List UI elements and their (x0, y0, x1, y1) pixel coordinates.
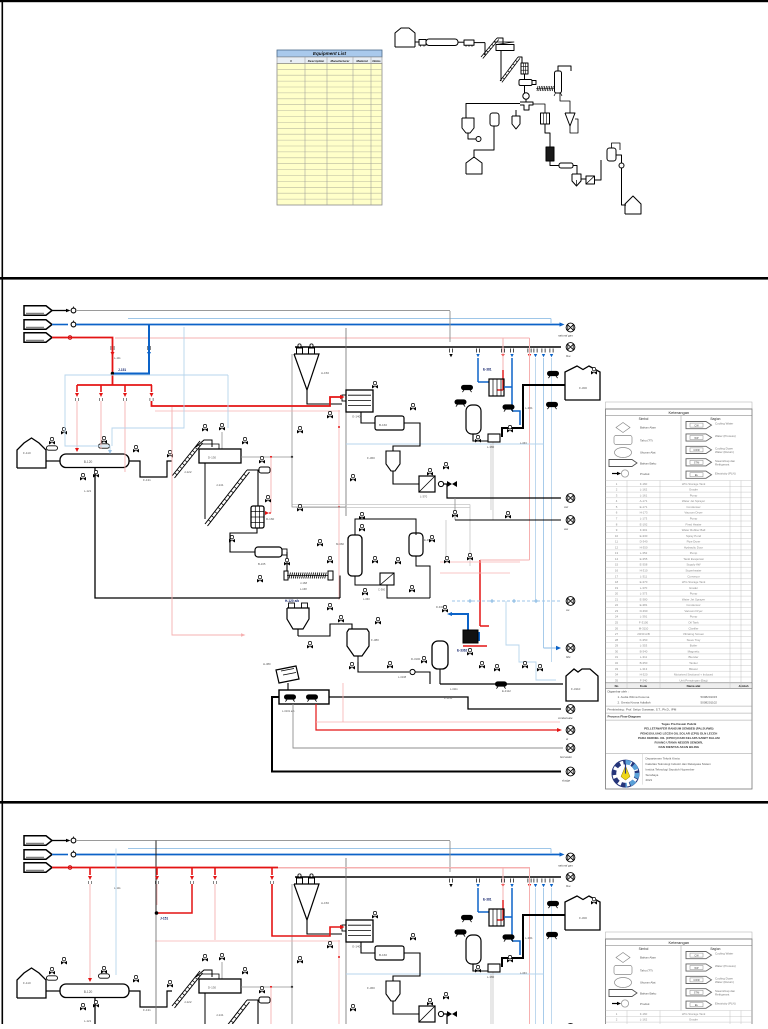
svg-text:2021: 2021 (646, 778, 653, 782)
svg-text:DAN DIENTAS AKAN BILING: DAN DIENTAS AKAN BILING (658, 745, 699, 749)
svg-text:F-3100: F-3100 (639, 621, 649, 625)
svg-text:Surabaya: Surabaya (646, 773, 659, 777)
svg-text:Pump: Pump (690, 517, 698, 521)
svg-text:boil water: boil water (560, 755, 573, 759)
svg-text:12: 12 (615, 545, 619, 549)
p3 drop 272 (271, 868, 273, 876)
svg-text:H-320: H-320 (640, 673, 648, 677)
svg-text:L-3101 a/b: L-3101 a/b (282, 709, 295, 713)
feeder B-165 (255, 547, 282, 557)
D-310 vessel (466, 405, 481, 434)
svg-text:L-373: L-373 (640, 592, 648, 596)
svg-text:Institut Teknologi Sepuluh Nop: Institut Teknologi Sepuluh Nopember (646, 767, 695, 771)
sketch mill (519, 80, 532, 86)
svg-text:Notes: Notes (372, 59, 381, 63)
svg-text:F-110: F-110 (23, 451, 31, 455)
svg-text:Water Jet Sprayer: Water Jet Sprayer (682, 597, 705, 601)
svg-text:18: 18 (615, 580, 619, 584)
svg-text:23: 23 (615, 609, 619, 613)
svg-text:Unit Penyimpan (Bag): Unit Penyimpan (Bag) (679, 678, 707, 682)
svg-text:24: 24 (615, 615, 619, 619)
svg-text:L-353: L-353 (640, 644, 648, 648)
svg-text:Oil Tank: Oil Tank (688, 621, 699, 625)
svg-text:32: 32 (615, 661, 619, 665)
svg-text:Manufacturer: Manufacturer (330, 59, 350, 63)
svg-text:Magnetic: Magnetic (688, 649, 700, 653)
svg-text:E-192: E-192 (640, 522, 648, 526)
rotary dryer B-120 (60, 454, 129, 468)
svg-text:WP: WP (694, 436, 698, 440)
sketch T separator (520, 102, 533, 110)
svg-text:L-380: L-380 (487, 445, 495, 449)
red main to mill (152, 397, 342, 406)
legend symbol produk (612, 473, 618, 475)
page top border (0, 0, 768, 2)
svg-text:Sieve Tray: Sieve Tray (687, 638, 701, 642)
svg-text:F-340: F-340 (640, 678, 648, 682)
svg-text:K-350: K-350 (640, 638, 648, 642)
feed flag 3 (24, 333, 52, 342)
svg-text:L-370: L-370 (640, 586, 648, 590)
legend pill EL (686, 471, 712, 478)
svg-text:Kode: Kode (640, 684, 648, 688)
cyclone A-150 (294, 354, 319, 390)
svg-text:Pembimbing : Prof. Setiyo Guna: Pembimbing : Prof. Setiyo Gunawan, S.T.,… (608, 708, 677, 712)
node circle 1 (71, 308, 76, 313)
svg-text:condensate: condensate (558, 716, 573, 720)
svg-text:5008201102: 5008201102 (701, 701, 718, 705)
E-3362 cluster (479, 560, 481, 626)
svg-text:D-340: D-340 (640, 540, 648, 544)
svg-text:Simbol: Simbol (639, 417, 649, 421)
svg-text:F-300: F-300 (579, 386, 587, 390)
sketch screen 2 (496, 45, 514, 51)
svg-text:H-310: H-310 (640, 569, 648, 573)
pink drop x172 to press (172, 407, 242, 635)
svg-text:B-350: B-350 (640, 661, 648, 665)
svg-text:H-380: H-380 (263, 662, 271, 666)
svg-text:natural gas: natural gas (558, 334, 573, 338)
svg-text:L-391: L-391 (640, 615, 648, 619)
svg-text:Tugas Pra Desain Pabrik: Tugas Pra Desain Pabrik (661, 722, 696, 726)
svg-text:D-160: D-160 (266, 517, 275, 521)
svg-text:Departemen Teknik Kimia: Departemen Teknik Kimia (646, 757, 680, 761)
svg-text:C-360: C-360 (378, 588, 386, 592)
svg-text:F-360: F-360 (367, 456, 375, 460)
vessel D-3100 (432, 641, 448, 669)
natural gas terminator (566, 323, 575, 332)
legend pill CW (686, 422, 712, 429)
silo F-300 (565, 366, 600, 400)
equipment list table (277, 50, 382, 205)
gray pair rails (292, 504, 470, 506)
svg-text:Equipment List: Equipment List (313, 51, 347, 56)
cw dashed line (452, 600, 560, 602)
sketch screw coil (537, 86, 538, 91)
svg-text:L-121: L-121 (84, 489, 92, 493)
svg-text:LPG Storage Tank: LPG Storage Tank (682, 580, 706, 584)
pink stub (115, 337, 152, 339)
p3 red elbow J-151 (158, 884, 192, 913)
svg-text:Pump: Pump (690, 592, 698, 596)
red feed turn down (66, 338, 113, 386)
svg-text:Keterangan: Keterangan (668, 410, 689, 415)
sketch conveyor 2 (500, 57, 518, 81)
p3 pink continuation (278, 867, 530, 869)
sketch silo 3 (625, 196, 641, 214)
pump box (279, 690, 329, 704)
sketch grid tower (521, 63, 528, 74)
pink drop x529 (529, 338, 531, 560)
svg-text:Clarifier: Clarifier (689, 626, 699, 630)
flue gas terminator (566, 343, 575, 352)
svg-text:No: No (615, 684, 619, 688)
sketch ball mill (dark) (524, 86, 526, 94)
svg-text:J-122: J-122 (184, 470, 192, 474)
mini flowsheet sketch (395, 28, 641, 214)
svg-text:F-301: F-301 (640, 528, 648, 532)
svg-text:Conveyor: Conveyor (687, 574, 699, 578)
svg-text:CW: CW (694, 423, 699, 427)
svg-text:E-380: E-380 (640, 597, 648, 601)
svg-text:M-3110: M-3110 (639, 626, 649, 630)
feed flag 2 (24, 320, 52, 329)
svg-text:20/30 A/B: 20/30 A/B (637, 632, 650, 636)
svg-text:LPG Storage Tank: LPG Storage Tank (682, 482, 706, 486)
red feed main p3 (66, 867, 278, 869)
svg-text:Nama alat: Nama alat (687, 684, 701, 688)
svg-text:PELLET/WAFER RANSUM SEMBEB (PA: PELLET/WAFER RANSUM SEMBEB (PALSU/WB) (644, 727, 713, 731)
svg-text:J-168: J-168 (300, 581, 307, 585)
line mill to B-160 (361, 412, 375, 423)
blue header drop E-381 (477, 358, 479, 382)
svg-text:M-360: M-360 (336, 542, 344, 546)
conveyor J-141 (205, 470, 247, 524)
svg-text:flue: flue (566, 354, 571, 358)
manifold drop 151.5 (151, 385, 153, 392)
svg-text:22: 22 (615, 603, 619, 607)
svg-text:F-380: F-380 (371, 638, 379, 642)
gray feed line p3 (76, 840, 450, 842)
red manifold (77, 384, 152, 386)
legend pill CWR (686, 446, 712, 453)
svg-text:F-3110: F-3110 (571, 687, 581, 691)
svg-text:Water (Return): Water (Return) (715, 450, 734, 454)
svg-text:Pump: Pump (690, 551, 698, 555)
svg-text:RUANG UTAMA NEGERI SENDIRI,: RUANG UTAMA NEGERI SENDIRI, (655, 741, 704, 745)
svg-text:Bahan Alam: Bahan Alam (640, 426, 657, 430)
tower D-160 (251, 506, 264, 528)
svg-text:B-340: B-340 (640, 649, 648, 653)
svg-text:Condensor: Condensor (686, 603, 700, 607)
F-300 thick path (502, 385, 565, 437)
sketch screen box (464, 40, 474, 45)
hopper F-360 (386, 451, 400, 456)
svg-text:D-330: D-330 (436, 605, 444, 609)
legend pill WP (686, 434, 712, 441)
sketch silo F-110 (395, 28, 415, 47)
svg-text:Description: Description (308, 59, 325, 63)
svg-text:10: 10 (615, 534, 619, 538)
line to circle 520 (454, 498, 456, 520)
sketch hopper mid (512, 116, 520, 129)
pumps near E-381 (461, 385, 473, 392)
svg-text:L-311: L-311 (640, 655, 648, 659)
svg-text:B-165: B-165 (258, 562, 266, 566)
svg-text:L-363: L-363 (520, 441, 527, 445)
svg-text:Grader: Grader (689, 586, 698, 590)
header valve cluster (448, 349, 450, 353)
sketch rotary dryer (426, 39, 458, 46)
column E-361 (409, 533, 423, 556)
svg-text:E-3112: E-3112 (502, 689, 511, 693)
svg-text:E-370: E-370 (640, 580, 648, 584)
screen D-130 (196, 440, 212, 447)
svg-text:31: 31 (615, 655, 619, 659)
svg-text:35: 35 (615, 678, 619, 682)
svg-text:J-151: J-151 (160, 917, 168, 921)
svg-text:13: 13 (615, 551, 619, 555)
svg-text:Fakultas Teknologi Industri da: Fakultas Teknologi Industri dan Rekayasa… (646, 762, 712, 766)
svg-text:Supply AW: Supply AW (686, 563, 700, 567)
page separator 2 (0, 801, 768, 804)
svg-text:Vibrating Screen: Vibrating Screen (683, 632, 705, 636)
svg-text:L-361: L-361 (525, 406, 533, 410)
svg-text:Process Flow Diagram: Process Flow Diagram (608, 715, 641, 719)
legend equipment table (606, 480, 753, 482)
svg-text:L-3111: L-3111 (444, 696, 453, 700)
product silo F-3110 (566, 669, 598, 701)
svg-text:B-160: B-160 (379, 423, 387, 427)
sketch silo 2 (466, 157, 482, 174)
sketch feeder (419, 40, 426, 46)
svg-text:L-311: L-311 (640, 574, 648, 578)
svg-text:Bagian: Bagian (711, 417, 721, 421)
pale manifold continuations (76, 401, 78, 448)
svg-text:2. Gresia Kirana Adiallah: 2. Gresia Kirana Adiallah (618, 701, 651, 705)
legend symbol rect (614, 436, 632, 445)
svg-text:Boiler: Boiler (690, 644, 697, 648)
svg-text:sludge: sludge (562, 779, 571, 783)
hopper F-380 (347, 629, 369, 656)
legend pill STM (686, 459, 712, 466)
svg-text:Tahu (??): Tahu (??) (640, 439, 653, 443)
svg-text:30: 30 (615, 649, 619, 653)
svg-text:Material: Material (356, 59, 368, 63)
black fuel header (295, 346, 561, 348)
svg-text:st: st (566, 737, 568, 741)
sketch dark vessel (546, 147, 554, 161)
silo F-110 (17, 438, 46, 468)
legend symbol flag (609, 460, 637, 467)
pink drop x503 (502, 338, 504, 370)
svg-text:D-130: D-130 (208, 456, 217, 460)
pump circle (438, 481, 443, 486)
svg-text:Digambar oleh :: Digambar oleh : (608, 690, 629, 694)
box C-360 (380, 573, 394, 585)
svg-text:E-3362: E-3362 (457, 649, 468, 653)
svg-text:H-350: H-350 (640, 545, 648, 549)
blue header drop 2 (511, 358, 513, 411)
manifold drop 125 (124, 385, 126, 392)
svg-text:19: 19 (615, 586, 619, 590)
svg-text:Fired Heater: Fired Heater (685, 522, 701, 526)
svg-text:Jumlah: Jumlah (738, 684, 748, 688)
manifold drop 101 (100, 385, 102, 392)
svg-text:L-3111: L-3111 (450, 687, 458, 691)
gray long vertical (345, 328, 347, 516)
pink parallel return (155, 410, 340, 412)
svg-text:Produk: Produk (640, 472, 650, 476)
light blue line (128, 318, 551, 320)
light blue to P circle (544, 647, 557, 649)
svg-text:E-381: E-381 (640, 603, 648, 607)
svg-text:Blender: Blender (689, 655, 699, 659)
sketch inv triangle (565, 113, 575, 126)
column M-360 (348, 535, 362, 576)
svg-text:E-330: E-330 (640, 534, 648, 538)
sketch x-box (586, 176, 595, 184)
svg-text:Tanki Evaporasi: Tanki Evaporasi (683, 557, 704, 561)
blue natural gas main (76, 324, 561, 326)
instrument valves (61, 427, 67, 434)
conveyor J-122 (172, 441, 200, 476)
svg-text:J-151: J-151 (118, 368, 126, 372)
rotary valve L-370 (419, 476, 435, 492)
svg-text:Electricity (PLN): Electricity (PLN) (715, 471, 736, 475)
svg-text:Ukuran Alat: Ukuran Alat (640, 451, 656, 455)
sketch hopper left (462, 118, 474, 133)
svg-text:Condenser: Condenser (686, 505, 700, 509)
pale blue loop (506, 601, 556, 680)
svg-text:Grader: Grader (689, 488, 698, 492)
svg-text:Cooling Water: Cooling Water (715, 422, 733, 426)
screw conveyor J-168 (289, 573, 291, 579)
svg-text:29: 29 (615, 644, 619, 648)
svg-text:E-355: E-355 (640, 557, 648, 561)
legend symbol ellipse (615, 448, 632, 458)
svg-text:L-162: L-162 (640, 488, 648, 492)
svg-text:L-313: L-313 (640, 667, 648, 671)
sketch hopper 3 (572, 174, 581, 186)
svg-text:L-3108: L-3108 (398, 675, 407, 679)
svg-text:PENGGULUNG LECEH OIL SOLAR (CP: PENGGULUNG LECEH OIL SOLAR (CPO) DLN LEC… (640, 731, 717, 735)
svg-text:21: 21 (615, 597, 619, 601)
svg-text:Bahan Baku: Bahan Baku (640, 462, 657, 466)
legend panel box (606, 402, 753, 409)
svg-text:Superheater: Superheater (686, 569, 702, 573)
p3 light blue drop (115, 849, 117, 976)
trough after dryer (129, 461, 172, 477)
svg-text:H-120 a/b: H-120 a/b (285, 599, 299, 603)
svg-text:5008201015: 5008201015 (701, 695, 718, 699)
svg-text:Water Jet Sprayer: Water Jet Sprayer (682, 499, 705, 503)
sketch cylinder small (559, 163, 573, 168)
mill G-140 (346, 390, 373, 412)
svg-text:L-370: L-370 (420, 495, 428, 499)
node circle 2 (71, 322, 76, 327)
sketch striped vessel (541, 113, 550, 124)
bottom long lines (272, 697, 561, 772)
svg-text:11: 11 (615, 540, 618, 544)
pale pink recirc (316, 721, 560, 723)
svg-text:B-120: B-120 (84, 460, 93, 464)
dark vertical x156 (155, 841, 157, 914)
svg-text:15: 15 (615, 563, 619, 567)
svg-text:F-160: F-160 (640, 482, 648, 486)
svg-text:17: 17 (615, 574, 619, 578)
svg-text:E-381: E-381 (483, 368, 492, 372)
legend symbol diamond (616, 423, 630, 433)
svg-text:26: 26 (615, 626, 619, 630)
svg-text:Spray Pond: Spray Pond (686, 534, 701, 538)
svg-text:27: 27 (615, 632, 619, 636)
svg-text:33: 33 (615, 667, 619, 671)
light blue mid branch (346, 443, 544, 445)
svg-text:Water Rubber Ball: Water Rubber Ball (682, 528, 706, 532)
svg-text:Pump: Pump (690, 493, 698, 497)
svg-text:D-3100: D-3100 (411, 657, 421, 661)
sketch tall vessel (555, 71, 562, 93)
page separator 1 (0, 277, 768, 280)
p3 red to mill (272, 884, 341, 936)
gray inst line down (449, 311, 451, 342)
svg-text:L-111: L-111 (114, 356, 121, 360)
feed flag 1 (24, 306, 52, 315)
svg-text:Pump: Pump (690, 615, 698, 619)
svg-text:20: 20 (615, 592, 619, 596)
D-130 gray out (241, 456, 292, 458)
svg-text:J-141: J-141 (216, 483, 224, 487)
pink header line (150, 337, 530, 339)
sketch conveyor 1 (481, 38, 497, 57)
blower B-160 (375, 416, 404, 430)
p3 drop 215 (214, 868, 216, 876)
svg-text:Motorized Sectional + Induced: Motorized Sectional + Induced (674, 673, 713, 677)
svg-text:L-352: L-352 (640, 551, 648, 555)
svg-text:Tanker: Tanker (689, 661, 698, 665)
svg-text:STM: STM (694, 461, 699, 465)
svg-text:Vacuum Dryer: Vacuum Dryer (684, 511, 702, 515)
svg-text:L-173: L-173 (640, 517, 648, 521)
sketch vessel right (607, 148, 616, 161)
blower ovals (47, 446, 58, 450)
svg-text:Vacuum Dryer: Vacuum Dryer (684, 609, 702, 613)
svg-text:Pipe Dryer: Pipe Dryer (687, 540, 701, 544)
svg-text:Refrigerant: Refrigerant (715, 463, 729, 467)
svg-text:Hydraulic Door: Hydraulic Door (684, 545, 703, 549)
p3 drop 192 (191, 868, 193, 876)
dryer bypass vertical (95, 468, 340, 599)
p3 drop 90 (89, 868, 91, 876)
svg-text:E-171: E-171 (640, 505, 648, 509)
svg-text:34: 34 (615, 673, 619, 677)
svg-text:F-131: F-131 (143, 478, 151, 482)
svg-text:14: 14 (615, 557, 619, 561)
svg-text:1. Audia Wilma Kusuma: 1. Audia Wilma Kusuma (618, 695, 650, 699)
sketch vessel mid (490, 113, 499, 126)
svg-text:D-390: D-390 (640, 609, 648, 613)
manifold drop 77 (76, 385, 78, 392)
light blue box left (65, 375, 228, 451)
svg-text:EL: EL (695, 473, 699, 477)
svg-text:A-171: A-171 (640, 499, 648, 503)
svg-text:L-168: L-168 (300, 587, 307, 591)
svg-text:G-140: G-140 (352, 415, 361, 419)
svg-text:PADA KERNEL OIL (CPKO) DARI KE: PADA KERNEL OIL (CPKO) DARI KELAPA SAWIT… (638, 736, 720, 740)
svg-text:Blower: Blower (689, 667, 698, 671)
gray vertical x292 (291, 354, 293, 457)
